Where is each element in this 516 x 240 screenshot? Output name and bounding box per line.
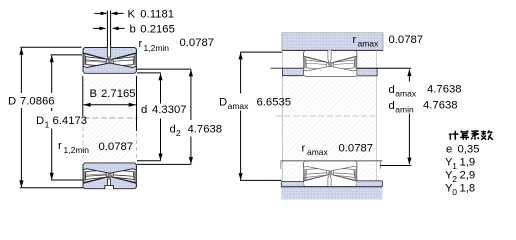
svg-text:2: 2 xyxy=(176,128,181,138)
da extension line bottom xyxy=(380,165,411,167)
dimension damax/damin line xyxy=(408,70,410,164)
svg-text:D: D xyxy=(219,97,227,109)
svg-text:0.0787: 0.0787 xyxy=(389,34,424,46)
dimension Damax line xyxy=(240,53,242,180)
svg-text:0.2165: 0.2165 xyxy=(140,24,175,36)
svg-text:0.0787: 0.0787 xyxy=(99,141,134,153)
dimension D1 extension lines xyxy=(51,54,82,56)
bottom relief notch in outer ring xyxy=(105,185,114,189)
bearing top (right view) xyxy=(304,50,357,76)
svg-text:r: r xyxy=(58,140,62,152)
svg-text:K: K xyxy=(128,9,136,21)
svg-text:1,2min: 1,2min xyxy=(64,145,90,155)
svg-text:d: d xyxy=(389,84,395,96)
side dashed lines between halves xyxy=(82,120,84,158)
svg-text:r: r xyxy=(139,38,143,50)
dimension D line xyxy=(20,48,22,187)
svg-text:0,35: 0,35 xyxy=(458,143,480,155)
housing shoulder bottom-left xyxy=(281,182,303,187)
lube groove lines above bearing xyxy=(107,11,110,48)
shaft bore hatch strip xyxy=(84,76,138,161)
bearing top half xyxy=(83,47,136,73)
svg-text:2.7165: 2.7165 xyxy=(101,88,136,100)
svg-text:B: B xyxy=(90,88,98,100)
svg-text:7.0866: 7.0866 xyxy=(20,96,55,108)
dimension d extension lines xyxy=(137,72,161,74)
svg-text:4.7638: 4.7638 xyxy=(188,124,223,136)
dimension d line xyxy=(160,74,162,161)
svg-text:2: 2 xyxy=(452,174,457,184)
svg-text:d: d xyxy=(141,104,147,116)
svg-text:0.0787: 0.0787 xyxy=(180,37,215,49)
算 xyxy=(460,130,469,139)
svg-text:1: 1 xyxy=(452,161,457,171)
dimension B line with arrows xyxy=(84,104,136,106)
dimension Damax extension lines xyxy=(240,51,282,53)
dimension B extension lines xyxy=(82,76,84,117)
shoulder bottom edges top xyxy=(282,75,303,77)
dimension d2 line xyxy=(190,70,192,164)
dimension D extension lines xyxy=(20,46,81,48)
bearing bottom half (mirror) xyxy=(83,163,136,189)
svg-text:1,9: 1,9 xyxy=(460,156,476,168)
axis centerline right view xyxy=(276,115,378,117)
svg-text:amax: amax xyxy=(307,147,329,157)
dimension K arrows xyxy=(95,12,107,14)
svg-text:4.3307: 4.3307 xyxy=(152,104,187,116)
dimension D1 line xyxy=(51,56,53,180)
svg-text:2,9: 2,9 xyxy=(460,169,476,181)
dimension d2 extension lines xyxy=(137,68,191,70)
svg-text:0.0787: 0.0787 xyxy=(339,143,374,155)
shaft shoulder top-left xyxy=(282,69,303,76)
dimension b arrows xyxy=(93,27,105,29)
svg-text:4.7638: 4.7638 xyxy=(427,84,462,96)
svg-text:d: d xyxy=(389,100,395,112)
calculation factors header 计算系数 (drawn strokes) xyxy=(449,130,493,139)
housing band bottom xyxy=(281,187,382,200)
bearing bottom (right view, mirror) xyxy=(304,161,357,187)
svg-text:0.1181: 0.1181 xyxy=(140,9,174,21)
svg-text:D: D xyxy=(8,96,16,108)
svg-text:amax: amax xyxy=(395,88,417,98)
svg-text:6.4173: 6.4173 xyxy=(53,115,88,127)
系 xyxy=(471,131,479,140)
svg-text:b: b xyxy=(130,24,136,36)
svg-text:4.7638: 4.7638 xyxy=(423,100,458,112)
svg-text:amin: amin xyxy=(395,104,414,114)
svg-text:D: D xyxy=(36,115,44,127)
shaft shoulder top-right xyxy=(357,69,377,76)
shaft section hatch xyxy=(283,51,377,187)
housing shoulder bottom-right xyxy=(357,181,383,187)
svg-text:d: d xyxy=(170,124,176,136)
svg-text:e: e xyxy=(446,143,452,155)
shaft left boundary line xyxy=(282,51,284,187)
svg-text:6.6535: 6.6535 xyxy=(257,97,292,109)
svg-text:1: 1 xyxy=(45,120,50,130)
shaft right boundary line xyxy=(375,51,377,187)
svg-text:r: r xyxy=(302,143,306,155)
svg-text:amax: amax xyxy=(228,101,250,111)
svg-text:1,8: 1,8 xyxy=(460,182,476,194)
shaft shoulder faces bottom xyxy=(280,161,282,169)
svg-text:r: r xyxy=(353,34,357,46)
da extension line top xyxy=(357,67,411,69)
数 xyxy=(481,130,493,139)
shaft surface above bottom bearing xyxy=(281,160,383,162)
计 xyxy=(449,131,459,140)
svg-text:0: 0 xyxy=(452,187,457,197)
svg-text:amax: amax xyxy=(358,38,380,48)
centerline (axis) xyxy=(84,117,139,119)
housing band xyxy=(282,33,383,51)
svg-text:1,2min: 1,2min xyxy=(144,43,170,53)
